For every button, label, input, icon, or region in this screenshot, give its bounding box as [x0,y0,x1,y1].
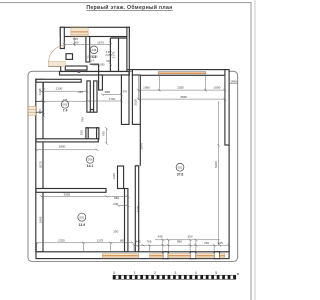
svg-text:3: 3 [174,271,176,275]
svg-text:865: 865 [120,239,125,243]
svg-text:1890: 1890 [230,80,237,84]
wall: bottom pier 1 [163,252,169,259]
svg-text:4: 4 [195,271,197,275]
dim line hall y101.2 [44,100,87,102]
wall: room008 south door header line [90,64,99,75]
wall: top-left block top band [60,27,129,36]
dimension lines group [35,37,238,253]
svg-text:350: 350 [187,235,192,239]
svg-text:2985: 2985 [39,216,43,223]
wall: niche east band [97,128,99,139]
wall: corridor pillar [118,166,124,189]
scale bar checkers [113,275,236,279]
window: room002 south window [102,254,138,258]
wall: room008 dim column lines [110,38,126,72]
wall: room005/006 divider band [36,139,98,142]
svg-text:1175: 1175 [97,239,104,243]
svg-text:1090: 1090 [214,86,221,90]
dark fixture block on hall wall [78,70,81,73]
svg-text:14.1: 14.1 [87,164,94,168]
svg-text:2100: 2100 [56,87,63,91]
wall: niche top line [86,127,99,129]
wall: corridor jog cap [90,110,93,113]
dim line room006 2890 [35,149,99,152]
wall: bottom exterior band [36,252,229,259]
svg-text:2325: 2325 [58,239,65,243]
svg-text:1760: 1760 [109,97,116,101]
dim extension lines bottom piers [134,240,214,252]
dim extension lines big room top [138,75,225,100]
svg-text:0,4: 0,4 [90,59,94,63]
svg-text:0,95/1,950: 0,95/1,950 [92,63,105,67]
wall: top-left block right band [127,27,129,75]
svg-text:230: 230 [113,202,118,206]
wall: right exterior band [225,70,229,145]
svg-text:898: 898 [105,90,110,94]
svg-text:705: 705 [218,241,223,245]
svg-text:4535: 4535 [180,95,187,99]
svg-text:1100: 1100 [38,88,42,95]
wall: band under entry door [65,66,87,70]
window: south window A [150,254,163,258]
dim vline corridor 790s [105,127,108,145]
dim line corridor 898/570 [101,93,123,96]
svg-text:790: 790 [80,117,84,122]
svg-text:345: 345 [157,235,162,239]
dim line bottom-right row1 [155,239,220,242]
room label 006 [86,156,93,168]
svg-text:960: 960 [177,240,182,244]
wall: room 002 east band [125,189,128,252]
svg-text:005: 005 [63,103,68,107]
svg-text:2,050: 2,050 [105,53,112,57]
wall: left exterior band [36,79,43,252]
dim line bottom-left 2325/1175/865 [35,242,134,253]
dim line room008 top [63,37,111,47]
svg-text:860: 860 [114,196,119,200]
room label 002 [78,213,86,227]
svg-text:1090: 1090 [143,86,150,90]
dim line big room 4535 [137,98,227,101]
svg-text:445: 445 [135,240,140,244]
right page edge line 1 [250,2,252,300]
svg-text:2890: 2890 [59,145,66,149]
dim ticks big room west wall [137,165,140,249]
svg-text:505: 505 [106,59,111,63]
room label 005 [61,98,68,113]
svg-text:37.8: 37.8 [177,172,184,176]
wall: corridor east band [121,75,129,124]
svg-text:200: 200 [113,229,118,233]
svg-text:1: 1 [134,271,136,275]
svg-text:2020: 2020 [134,99,138,106]
wall: slot cap line [128,69,133,71]
svg-text:2: 2 [154,271,156,275]
wall: main horizontal band y71.5 right part [132,70,228,76]
wall: big room west opening line [139,124,141,165]
wall: corridor east stub band [99,75,103,90]
window: top-left block window [71,28,88,36]
window: south window D [220,254,225,258]
window: big room north window [158,72,205,75]
dim line corridor 1760 [87,100,123,103]
room label 008 [90,46,98,59]
top toolbar divider line [0,2,251,4]
entry threshold tan block [48,62,65,67]
wall: big room west band lower [135,166,138,252]
svg-text:Первый этаж. Обмерный план: Первый этаж. Обмерный план [86,4,172,11]
wall: right exterior single line lower [228,145,230,252]
svg-text:530: 530 [79,130,83,135]
dim line 230 [117,204,130,207]
svg-text:2175: 2175 [112,51,116,58]
right page edge line 2 [254,0,256,300]
svg-text:8200: 8200 [214,161,218,168]
wall: room006/002 divider band [36,189,106,193]
dim vline room005 [42,82,45,117]
svg-text:3365: 3365 [63,192,70,196]
door swing arc at entry [49,46,65,62]
wall: big room west band upper [132,75,140,124]
dim line bottom-right row2 [133,244,231,247]
svg-text:002: 002 [79,215,84,219]
wall: top-left block left band [60,27,64,48]
svg-text:4.1: 4.1 [92,55,97,59]
wall: main horizontal band y71.5 left part [60,72,130,76]
wall: bottom pier 3 [214,252,220,259]
svg-text:7.4: 7.4 [63,109,68,113]
dim line big room 1090/2355/1090 [137,89,227,92]
svg-text:1670: 1670 [97,41,104,45]
svg-text:1325: 1325 [112,173,116,180]
svg-text:0: 0 [113,271,115,275]
svg-text:2075: 2075 [39,161,43,168]
wall: entry closet rect [66,54,73,60]
svg-text:5: 5 [215,271,217,275]
svg-text:470: 470 [38,109,42,114]
wall: hall south band y79.8 [36,79,81,82]
dim line 1890 tick [229,83,237,85]
wall: step jog outline at entry [48,66,60,71]
dim line room008 col ticks [109,41,112,65]
svg-text:2355: 2355 [177,86,184,90]
window: south window B [168,254,190,258]
wall: niche west band [86,128,88,139]
dim line room006/002 [40,195,130,198]
left wall door jambs [36,100,43,102]
apartment outer contour (gray rounded border) [28,71,238,261]
tiny dimension texts [38,37,237,245]
dim line 8200 vertical [217,101,220,245]
entry porch steps at left wall [28,106,36,115]
svg-text:760: 760 [204,241,209,245]
svg-text:765: 765 [146,240,151,244]
wall: corridor west band [94,81,97,112]
scale bar [113,271,240,276]
room label 001 [176,163,184,176]
dim vline left wall x43.6 [42,100,45,114]
svg-text:008: 008 [92,48,97,52]
svg-text:180: 180 [73,40,78,44]
svg-text:790: 790 [102,131,106,136]
wall: room 008 partition band [86,37,90,63]
dim line hall 2100 [40,90,89,93]
svg-text:570: 570 [123,89,128,93]
svg-text:4140: 4140 [136,205,140,212]
wall: room005 right band [87,81,90,112]
svg-text:1970: 1970 [139,143,143,150]
svg-text:001: 001 [178,166,183,170]
wall: bottom pier 2 [190,252,196,259]
svg-text:13.9: 13.9 [78,223,85,227]
svg-text:006: 006 [88,158,93,162]
window: south window C [196,254,214,258]
svg-text:245: 245 [78,90,83,94]
